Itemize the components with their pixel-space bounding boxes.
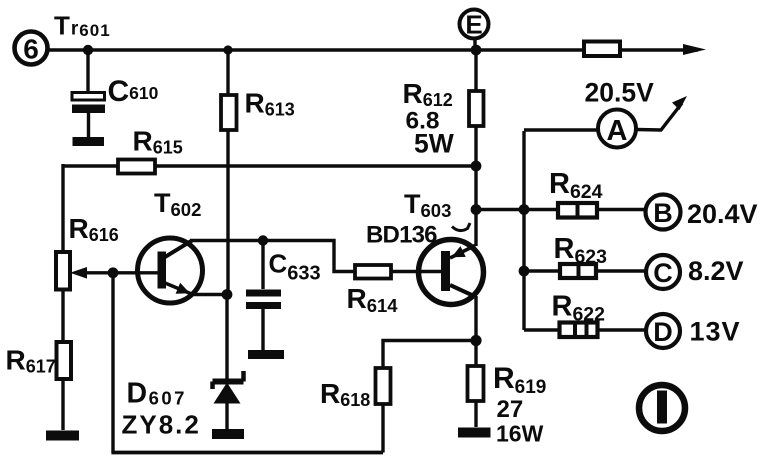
wire (R616 to R617) — [61, 290, 64, 343]
transistor T603 — [419, 240, 484, 305]
junction (B / riser) — [519, 204, 530, 215]
wiper arrow into R616 — [70, 267, 158, 279]
svg-text:A: A — [607, 115, 628, 147]
ground (C610) — [73, 137, 105, 146]
capacitor C610 — [72, 50, 105, 137]
svg-text:20.4V: 20.4V — [687, 199, 758, 229]
resistor R617 — [57, 342, 72, 379]
transistor T602 — [138, 238, 203, 303]
capacitor C633 — [246, 241, 281, 351]
svg-text:BD136: BD136 — [366, 222, 437, 249]
wire (T603 collector down) — [474, 296, 477, 366]
svg-text:8.2V: 8.2V — [688, 256, 744, 286]
resistor R613 — [221, 50, 237, 294]
svg-text:13V: 13V — [690, 317, 741, 347]
resistor (unlabeled, top rail) — [584, 42, 620, 57]
resistor R622 — [560, 323, 598, 338]
wire (R617 to ground) — [61, 379, 64, 430]
node E — [460, 10, 489, 51]
resistor R616 (pot) — [56, 252, 70, 290]
wire (feedback vertical) — [111, 273, 114, 453]
junction (R612 / R615 wire) — [471, 161, 482, 172]
resistor R612 — [469, 50, 484, 167]
wire (R614 to T603 base) — [391, 270, 441, 273]
ground (R617) — [46, 431, 79, 441]
junction (C610 / rail) — [83, 45, 93, 55]
wire (T602 collector to R614) — [190, 241, 355, 272]
node B — [646, 195, 681, 230]
wire (zener drop) — [225, 295, 228, 382]
junction (C / riser) — [519, 266, 530, 277]
resistor R615 — [118, 160, 155, 174]
resistor R619 — [468, 366, 484, 401]
junction (emitter / zener line) — [222, 289, 233, 300]
junction (R613 / rail) — [223, 45, 232, 54]
wire (T602 emitter to R613/D607 line) — [194, 293, 228, 296]
tick mark near T603 — [452, 223, 470, 231]
resistor R614 — [355, 265, 391, 279]
node D — [646, 314, 680, 348]
resistor R623 — [560, 264, 596, 278]
resistor R618 — [376, 368, 391, 404]
svg-text:D: D — [653, 317, 673, 347]
ground (R619) — [458, 428, 491, 438]
wire (A branch horizontal) — [524, 128, 598, 131]
svg-text:16W: 16W — [496, 421, 544, 447]
ground (D607) — [212, 429, 244, 439]
current source symbol I — [639, 385, 685, 431]
svg-text:E: E — [465, 10, 482, 40]
svg-text:ZY8.2: ZY8.2 — [122, 410, 201, 440]
svg-text:B: B — [653, 198, 673, 228]
wire (left branch down) — [61, 164, 64, 252]
wire (R618 to bottom run) — [381, 404, 384, 453]
rail arrowhead — [683, 44, 706, 55]
wire (A branch riser) — [522, 131, 525, 330]
junction (C633 top) — [258, 235, 268, 245]
wire (R615 rail to R612 node) — [63, 164, 476, 167]
resistor R624 — [558, 203, 597, 218]
node A — [598, 110, 636, 148]
wire (B branch) — [476, 208, 646, 211]
junction (wiper / feedback) — [108, 267, 119, 278]
wire (R618 branch) — [383, 341, 476, 369]
wire (C branch) — [524, 269, 646, 272]
wire (feedback bottom run) — [111, 451, 383, 455]
svg-text:5W: 5W — [414, 129, 454, 159]
junction (B branch) — [471, 204, 482, 215]
svg-text:27: 27 — [497, 396, 524, 423]
wire (D branch) — [524, 328, 646, 331]
junction (E / rail) — [471, 45, 482, 56]
svg-text:20.5V: 20.5V — [585, 78, 655, 108]
node C — [646, 255, 680, 289]
svg-text:C: C — [653, 258, 673, 288]
wire top rail — [48, 48, 698, 51]
svg-text:6: 6 — [23, 34, 39, 65]
zener diode D607 — [213, 371, 244, 429]
switch arrow at A — [636, 96, 687, 130]
node 6 terminal circle — [15, 32, 48, 65]
wire (R612 node down to emitter) — [474, 166, 477, 246]
wire (R619 to ground) — [474, 401, 477, 427]
junction (R618 / R619) — [470, 335, 481, 346]
ground (C633) — [248, 350, 284, 359]
